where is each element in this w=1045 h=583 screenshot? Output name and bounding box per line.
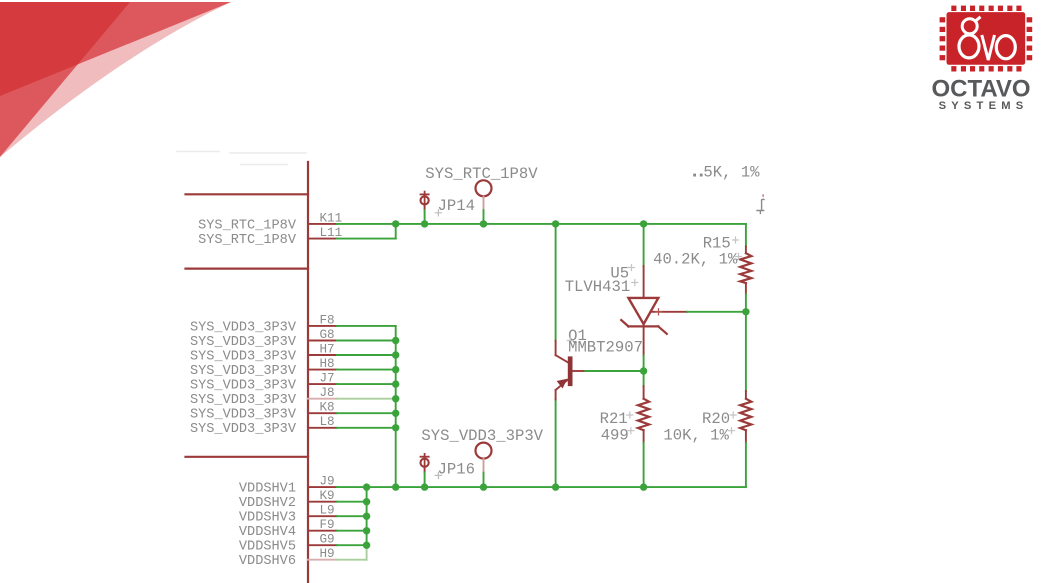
svg-text:5K, 1%: 5K, 1% <box>703 164 760 182</box>
wire VDD3 bus F8 horizontal <box>337 325 396 327</box>
wire J8 (faded) <box>337 398 396 400</box>
svg-text:SYS_VDD3_3P3V: SYS_VDD3_3P3V <box>190 364 297 379</box>
wire L11 riser <box>395 224 397 239</box>
wire J9 / bottom bus <box>337 486 746 488</box>
svg-text:SYS_VDD3_3P3V: SYS_VDD3_3P3V <box>190 320 297 335</box>
junction R21/bottom bus <box>640 483 647 490</box>
wire VDD3 vertical bus <box>395 326 397 487</box>
junction divider node <box>742 308 749 315</box>
U5 origin cross <box>629 265 635 271</box>
pin L11 <box>308 226 342 240</box>
junction Q1 emitter/bottom bus <box>552 483 559 490</box>
R15 origin cross <box>733 237 739 243</box>
svg-text:SYS_VDD3_3P3V: SYS_VDD3_3P3V <box>190 379 297 394</box>
wire U5 cathode from top bus <box>643 224 645 266</box>
10K origin cross <box>729 428 735 434</box>
junction supply stub/top bus <box>480 220 487 227</box>
IC boundary section line 3 <box>186 456 309 458</box>
svg-text:L9: L9 <box>320 504 335 518</box>
junction G9/bus <box>363 542 370 549</box>
svg-text:K8: K8 <box>320 401 335 415</box>
wire H8 <box>337 369 396 371</box>
svg-text:VDDSHV3: VDDSHV3 <box>239 511 296 526</box>
svg-text:VDDSHV4: VDDSHV4 <box>239 525 296 540</box>
junction G8/bus <box>392 337 399 344</box>
junction J8/bus <box>392 395 399 402</box>
svg-text:OCTAVO: OCTAVO <box>931 76 1030 103</box>
pin J8 (faded) <box>308 386 337 400</box>
wire supply SYS_RTC_1P8V to bus <box>483 210 485 224</box>
junction H8/bus <box>392 366 399 373</box>
svg-text:VDDSHV6: VDDSHV6 <box>239 554 296 569</box>
svg-text:SYS_VDD3_3P3V: SYS_VDD3_3P3V <box>190 335 297 350</box>
svg-text:VDDSHV2: VDDSHV2 <box>239 496 296 511</box>
pin J9 <box>308 475 337 489</box>
supply SYS_VDD3_3P3V pin stub (pale) <box>483 459 485 473</box>
pin F8 <box>308 313 337 327</box>
junction J9/bus <box>363 483 370 490</box>
svg-text:SYS_RTC_1P8V: SYS_RTC_1P8V <box>198 218 297 233</box>
junction K9/bus <box>363 498 370 505</box>
svg-text:SYS_VDD3_3P3V: SYS_VDD3_3P3V <box>190 408 297 423</box>
JP14 origin cross <box>435 210 441 216</box>
wire VDDSHV vertical bus <box>366 487 368 545</box>
svg-text:10K, 1%: 10K, 1% <box>663 426 729 444</box>
svg-text:K9: K9 <box>320 489 335 503</box>
junction Q1 base node <box>640 367 647 374</box>
svg-text:J8: J8 <box>320 386 335 400</box>
wire Q1 emitter to bottom bus <box>555 400 557 488</box>
wire G8 <box>337 340 396 342</box>
wire SYS_RTC_1P8V top bus K11 to R15 corner <box>337 223 746 225</box>
svg-text:JP16: JP16 <box>438 461 475 479</box>
pin H8 <box>308 357 337 371</box>
svg-text:SYS_VDD3_3P3V: SYS_VDD3_3P3V <box>421 427 543 445</box>
wire L9 <box>337 515 367 517</box>
svg-text:SYSTEMS: SYSTEMS <box>939 100 1029 112</box>
R21 origin cross <box>627 412 633 418</box>
resistor R20 <box>740 391 751 443</box>
test point JP16 symbol <box>421 454 429 468</box>
svg-text:MMBT2907: MMBT2907 <box>568 338 643 356</box>
pin H9 (faded) <box>308 547 337 561</box>
wire J7 <box>337 383 396 385</box>
pin J7 <box>308 372 337 386</box>
svg-text:H7: H7 <box>320 342 335 356</box>
svg-text:G8: G8 <box>320 328 335 342</box>
svg-text:R21: R21 <box>600 410 628 428</box>
wire divider node down to R20 <box>745 312 747 391</box>
svg-text:L8: L8 <box>320 415 335 429</box>
junction K8/bus <box>392 410 399 417</box>
svg-text:SYS_VDD3_3P3V: SYS_VDD3_3P3V <box>190 349 297 364</box>
R20 origin cross <box>730 412 736 418</box>
wire JP16 stub red <box>424 468 426 472</box>
value label ..5K, 1% (clipped component above) <box>693 164 760 182</box>
svg-text:JP14: JP14 <box>438 197 475 215</box>
junction supply VDD3/bottom bus <box>480 483 487 490</box>
wire JP14 stub to bus <box>424 210 426 224</box>
wire base node to R21 <box>643 375 645 387</box>
junction L11/top bus <box>392 220 399 227</box>
junction VDD3 bus/bottom bus <box>392 483 399 490</box>
svg-text:J9: J9 <box>320 475 335 489</box>
supply symbol SYS_VDD3_3P3V circle <box>476 443 492 459</box>
resistor R15 <box>740 247 751 295</box>
op-amp / shunt reference U5 TLVH431 <box>621 266 687 356</box>
IC boundary section line 1 <box>186 193 309 195</box>
resistor R21 <box>638 386 649 443</box>
junction J7/bus <box>392 380 399 387</box>
junction U5 cathode/top bus <box>640 220 647 227</box>
svg-text:H8: H8 <box>320 357 335 371</box>
pin L9 <box>308 504 337 518</box>
svg-text:SYS_VDD3_3P3V: SYS_VDD3_3P3V <box>190 393 297 408</box>
transistor Q1 MMBT2907 <box>556 341 586 400</box>
pin F9 <box>308 518 337 532</box>
wire L8 <box>337 427 396 429</box>
wire L11 horizontal <box>337 238 396 240</box>
svg-text:SYS_RTC_1P8V: SYS_RTC_1P8V <box>198 233 297 248</box>
pin H7 <box>308 342 337 356</box>
TLVH431 origin cross <box>632 280 638 286</box>
pin K9 <box>308 489 337 503</box>
supply SYS_RTC_1P8V pin stub (pale) <box>483 197 485 211</box>
junction H7/bus <box>392 351 399 358</box>
svg-text:G9: G9 <box>320 533 335 547</box>
IC boundary vertical edge <box>307 162 309 583</box>
wire G9 <box>337 544 367 546</box>
wire U5 ref to divider node <box>687 311 746 313</box>
junction L9/bus <box>363 513 370 520</box>
svg-text:TLVH431: TLVH431 <box>565 278 631 296</box>
wire K8 <box>337 412 396 414</box>
wire VDDSHV bus faded tail <box>366 545 368 560</box>
wire U5 anode to base node <box>643 356 645 368</box>
clipped component mark right <box>757 194 764 213</box>
junction JP16/bottom bus <box>421 483 428 490</box>
svg-text:SYS_VDD3_3P3V: SYS_VDD3_3P3V <box>190 422 297 437</box>
pin K8 <box>308 401 337 415</box>
svg-text:R20: R20 <box>702 410 730 428</box>
pin G9 <box>308 533 337 547</box>
junction JP14 stub/top bus <box>421 220 428 227</box>
wire R20 bottom to bottom bus corner <box>745 443 747 487</box>
supply symbol SYS_RTC_1P8V circle <box>476 180 492 196</box>
svg-text:VDDSHV1: VDDSHV1 <box>239 482 296 497</box>
Q1 origin cross <box>567 337 573 343</box>
svg-text:F9: F9 <box>320 518 335 532</box>
wire R15 bottom to divider node <box>745 294 747 312</box>
wire supply SYS_VDD3_3P3V to bus <box>483 473 485 488</box>
pin G8 <box>308 328 337 342</box>
wire H7 <box>337 354 396 356</box>
pin L8 <box>308 415 337 429</box>
svg-text:J7: J7 <box>320 372 335 386</box>
pin K11 <box>308 211 342 225</box>
svg-text:F8: F8 <box>320 313 335 327</box>
svg-text:SYS_RTC_1P8V: SYS_RTC_1P8V <box>425 165 538 183</box>
wire R21 bottom to bottom bus <box>643 443 645 487</box>
junction Q1 collector/top bus <box>552 220 559 227</box>
wire F9 <box>337 530 367 532</box>
svg-text:499: 499 <box>601 426 629 444</box>
junction L8/bus <box>392 424 399 431</box>
IC boundary section line 2 <box>186 268 309 270</box>
40.2K origin cross <box>736 254 742 260</box>
499 origin cross <box>628 428 634 434</box>
wire H9 (faded) <box>337 559 367 561</box>
wire JP16 stub to bus <box>424 473 426 488</box>
wire Q1 collector to top bus <box>555 224 557 341</box>
test point JP14 symbol <box>421 192 429 206</box>
wire JP14 stub red <box>424 206 426 210</box>
svg-text:VDDSHV5: VDDSHV5 <box>239 540 296 555</box>
wire Q1 base to node <box>585 370 643 372</box>
wire top bus corner down to R15 <box>745 224 747 247</box>
JP16 origin cross <box>435 472 441 478</box>
junction F9/bus <box>363 527 370 534</box>
wire K9 <box>337 501 367 503</box>
clipped text artifacts top <box>177 152 306 165</box>
svg-text:H9: H9 <box>320 547 335 561</box>
svg-text:40.2K, 1%: 40.2K, 1% <box>653 251 738 269</box>
